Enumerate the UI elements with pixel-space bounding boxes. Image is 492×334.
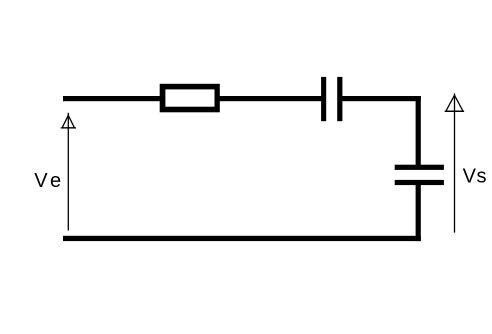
wire resistor-to-capacitor segment <box>218 96 322 101</box>
Vs arrow <box>445 93 464 232</box>
wire top-left segment <box>63 96 162 101</box>
resistor R1 <box>160 84 220 113</box>
capacitor C1 (series, left plate) <box>321 77 326 121</box>
capacitor C2 (shunt, bottom plate) <box>395 180 444 185</box>
capacitor C2 (shunt, top plate) <box>395 165 444 170</box>
svg-text:Vs: Vs <box>463 165 487 187</box>
wire right vertical lower segment <box>416 185 421 241</box>
svg-text:Ve: Ve <box>34 170 61 192</box>
capacitor C1 (series, right plate) <box>337 77 342 121</box>
wire right vertical upper segment <box>416 96 421 166</box>
wire bottom segment <box>63 236 421 241</box>
Ve arrow <box>61 113 76 231</box>
wire capacitor-to-corner segment <box>342 96 421 101</box>
